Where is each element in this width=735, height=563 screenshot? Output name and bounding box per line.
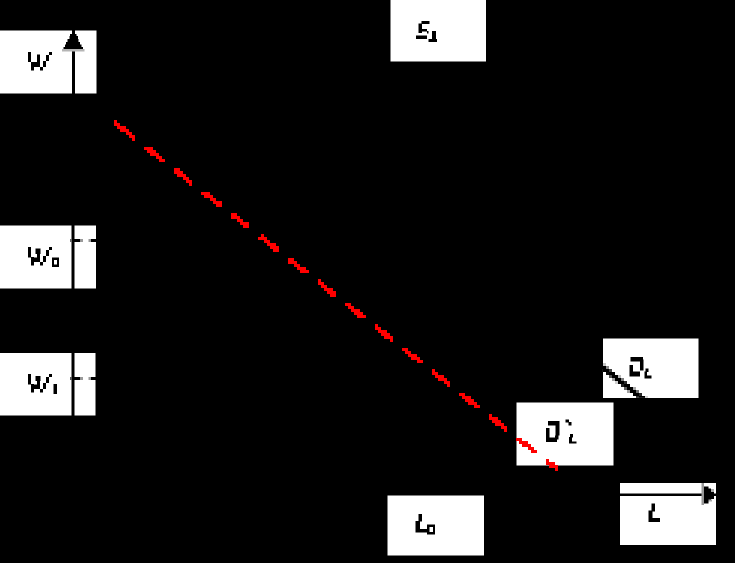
W axis vertical arrow shaft (72, 31, 75, 94)
L axis arrowhead stepped triangle (704, 487, 716, 504)
label box S2 (391, 0, 487, 62)
glyph L0 in box L0 (416, 514, 436, 535)
W axis arrowhead grey base fringe (62, 49, 85, 51)
label box D2 (603, 339, 699, 398)
glyph W0 in box W0 (28, 247, 59, 267)
label box W1 (0, 353, 96, 416)
glyph W1 in box W1 (28, 374, 57, 394)
W0 tick dashes (70, 239, 72, 242)
glyph D'2 in box D'2 (546, 420, 577, 444)
W1 tick dashes (70, 377, 72, 380)
glyph L in box L (649, 503, 660, 522)
W1 axis line segment (72, 353, 75, 416)
glyph D2 in box D2 (629, 357, 651, 379)
glyph S2 in box S2 (416, 21, 437, 42)
label box L0 (388, 496, 484, 556)
W0 axis line segment (72, 226, 75, 289)
L axis arrowhead grey step fringe (711, 489, 714, 492)
black demand line D2 inside box D2 (pixel blocks) (597, 363, 648, 405)
label box D'2 (517, 403, 614, 466)
label box W0 (0, 226, 96, 289)
L axis horizontal arrow shaft (620, 493, 707, 496)
red dashed demand curve D'2 (pixel blocks) (114, 120, 558, 471)
L axis arrowhead grey left fringe (702, 483, 705, 505)
W axis arrowhead stepped triangle (63, 34, 83, 49)
glyph W in box W (28, 52, 52, 71)
label box L (620, 483, 716, 545)
label box W (0, 31, 97, 94)
